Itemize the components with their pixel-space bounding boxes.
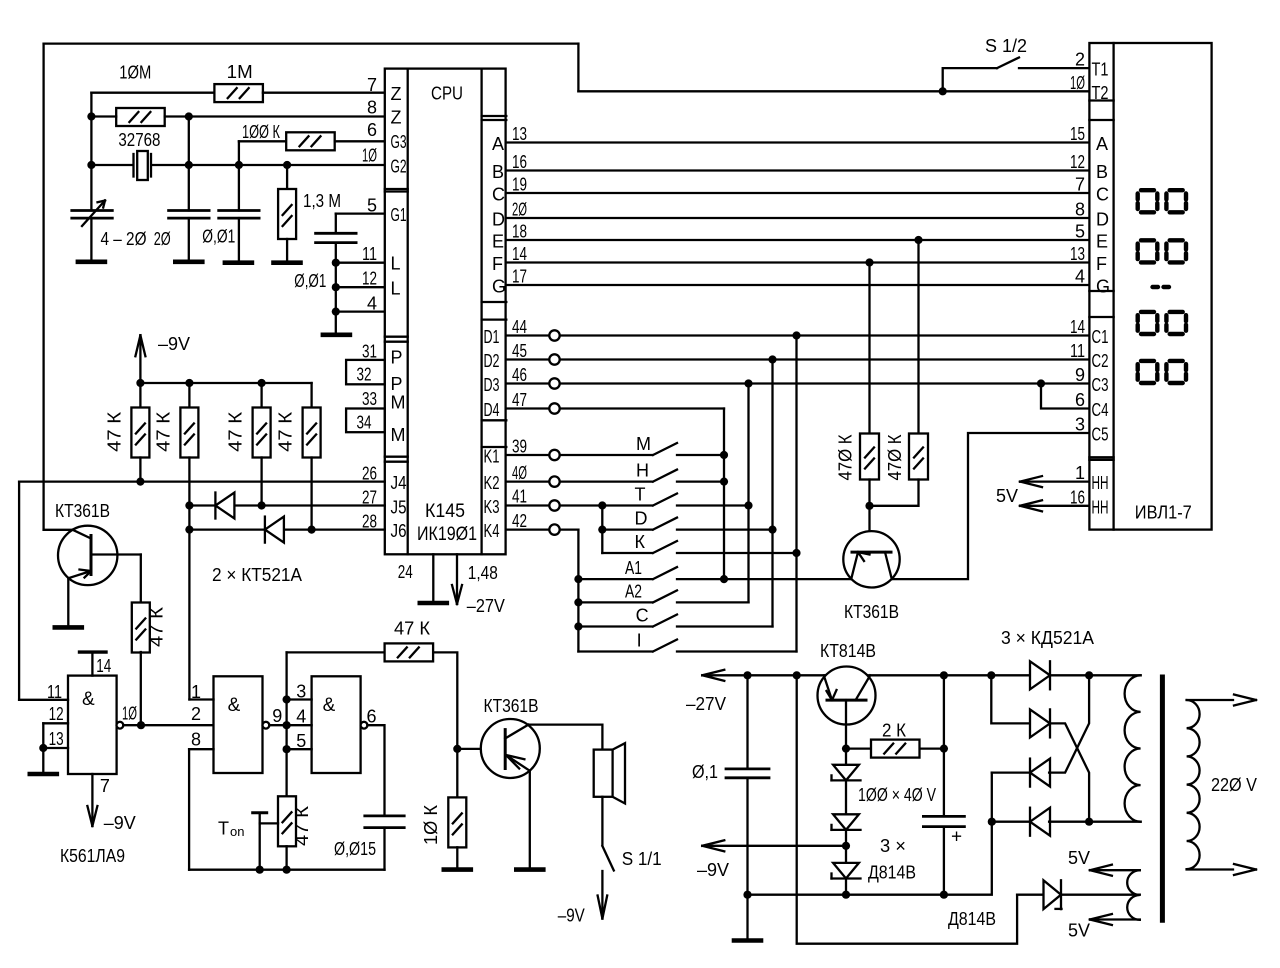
node G2 cap 0.01 (235, 161, 243, 169)
ground var cap (78, 259, 105, 264)
ground V1 (55, 625, 82, 630)
wire 470K b bottom (870, 480, 919, 506)
svg-text:K4: K4 (484, 521, 500, 541)
svg-text:3 ×: 3 × (880, 836, 906, 856)
svg-text:L: L (391, 254, 401, 274)
transistor V1 KT361B left (58, 526, 117, 585)
svg-text:D: D (1096, 210, 1109, 230)
svg-text:1Ø: 1Ø (362, 145, 377, 165)
transformer core (1160, 677, 1165, 920)
wire D2-C2 row (506, 358, 1089, 360)
svg-text:9: 9 (1075, 365, 1085, 385)
wire gate1 out (123, 724, 213, 726)
wire V1 base (91, 553, 141, 555)
svg-text:–9V: –9V (558, 906, 585, 926)
label IVL1-7 (1135, 502, 1192, 522)
svg-text:45: 45 (512, 341, 527, 361)
label 47K fb (394, 619, 431, 639)
svg-text:C3: C3 (1092, 375, 1109, 395)
wire speaker down (601, 797, 603, 845)
transformer 5V winding (1127, 870, 1140, 920)
svg-text:1: 1 (191, 682, 201, 702)
svg-text:K1: K1 (484, 447, 500, 467)
zener VD3 D814V (832, 749, 861, 815)
wire 13 ground (42, 748, 44, 774)
node J5 left (185, 501, 193, 509)
pin D1 circle (549, 330, 559, 340)
svg-text:5: 5 (1075, 222, 1085, 242)
switch K (602, 541, 796, 553)
node rail bridge (987, 671, 995, 679)
label 2 (191, 704, 201, 724)
diode VD7 KD521A (1030, 709, 1050, 737)
svg-text:&: & (82, 689, 95, 710)
svg-text:S 1/2: S 1/2 (985, 36, 1027, 56)
wire D4 row (506, 407, 724, 409)
svg-text:C: C (1096, 185, 1109, 205)
svg-text:13: 13 (512, 124, 527, 144)
diode VD9 KD521A (1030, 808, 1050, 836)
svg-text:1М: 1М (227, 62, 253, 82)
wire bridge left mid (992, 773, 1030, 822)
label 20 (154, 229, 171, 249)
svg-text:А2: А2 (625, 581, 642, 601)
node D row tap (598, 526, 606, 534)
label I (637, 631, 642, 651)
display pin numbers (1070, 50, 1085, 508)
label 5 (296, 731, 306, 751)
wire crystal row (91, 164, 384, 166)
svg-text:C1: C1 (1092, 327, 1109, 347)
gate DD1.1 K561LA9 (68, 676, 117, 774)
label 32768 (118, 130, 160, 150)
wire D row (992, 821, 1141, 823)
svg-text:Ø,Ø15: Ø,Ø15 (334, 839, 376, 859)
svg-text:16: 16 (512, 152, 527, 172)
label 0.01 a (202, 227, 235, 247)
resistor R5 470K (860, 434, 879, 480)
svg-text:К145: К145 (425, 501, 465, 522)
svg-text:ИК19Ø1: ИК19Ø1 (417, 524, 477, 545)
svg-text:47 К: 47 К (147, 606, 167, 647)
wire -9V arrow (702, 840, 846, 851)
svg-text:2: 2 (1075, 50, 1085, 70)
switch I (578, 640, 796, 652)
resistor R8 47K (180, 383, 198, 700)
switch C (578, 615, 772, 627)
label 47K R11 (147, 606, 167, 647)
svg-text:КТ361В: КТ361В (484, 696, 539, 716)
ground pin24 (420, 601, 447, 606)
svg-text:G1: G1 (391, 205, 407, 225)
svg-text:5: 5 (296, 731, 306, 751)
label -27V (686, 694, 726, 714)
node rail R8 (185, 379, 193, 387)
capacitor C7 100uF (923, 675, 964, 894)
svg-text:М: М (636, 434, 651, 454)
node A1-D4 (720, 575, 728, 583)
label 2xKT521A (212, 565, 302, 585)
svg-text:33: 33 (362, 389, 377, 409)
svg-text:НН: НН (1092, 473, 1109, 493)
transistor V4 KT814B (818, 667, 876, 725)
wire D3-C3 row (506, 382, 1089, 384)
svg-text:G3: G3 (391, 132, 407, 152)
svg-text:4: 4 (296, 707, 306, 727)
label 3x (880, 836, 906, 856)
svg-text:31: 31 (362, 341, 377, 361)
svg-text:2 К: 2 К (882, 721, 906, 741)
wire C diag (1049, 675, 1089, 772)
svg-text:39: 39 (512, 437, 527, 457)
wire E to 470K (917, 240, 919, 434)
svg-text:D1: D1 (484, 327, 500, 347)
svg-text:КТ361В: КТ361В (844, 602, 899, 622)
node K3 branch (598, 501, 606, 509)
svg-text:E: E (1096, 232, 1108, 252)
switch S1/1 (602, 846, 613, 871)
svg-text:46: 46 (512, 365, 527, 385)
label 2K (882, 721, 906, 741)
switch A2 (578, 590, 748, 602)
label H (636, 461, 649, 481)
svg-text:G: G (492, 277, 506, 297)
pin K1 circle (549, 450, 559, 460)
node bridge D right (1085, 818, 1093, 826)
svg-text:+: + (951, 827, 962, 848)
node zener rail (842, 891, 850, 899)
wire pin6 row (335, 140, 385, 142)
pin 10 circle (117, 722, 124, 729)
svg-text:3 × КД521А: 3 × КД521А (1001, 628, 1094, 648)
node bridge D (988, 818, 996, 826)
zener VD5 D814V (832, 863, 861, 895)
display pin dividers (1089, 101, 1113, 460)
wire feedback top (287, 651, 385, 653)
svg-text:E: E (492, 232, 504, 252)
capacitor C2 20 (169, 211, 210, 262)
svg-text:47 К: 47 К (292, 805, 312, 846)
wire D1 column (795, 336, 797, 652)
wire pin8 row (91, 115, 384, 117)
resistor R13 47K timing (278, 796, 296, 869)
ground cap 0.01 (225, 260, 252, 265)
wire pin 12 (43, 723, 68, 748)
ground cap 20 (175, 259, 202, 264)
node 10M left (87, 112, 95, 120)
svg-text:–9V: –9V (158, 334, 190, 354)
wire bridge left top (991, 675, 1030, 723)
svg-text:47 К: 47 К (105, 411, 125, 452)
diode VD8 KD521A (1030, 759, 1050, 787)
svg-text:5: 5 (367, 196, 377, 216)
svg-text:K2: K2 (484, 473, 500, 493)
svg-text:C2: C2 (1092, 351, 1109, 371)
node D1 column (792, 331, 800, 339)
svg-text:1ØØ × 4Ø V: 1ØØ × 4Ø V (858, 785, 936, 805)
label 3xKD521A (1001, 628, 1094, 648)
node D1-K (792, 549, 800, 557)
svg-text:С: С (636, 606, 649, 626)
node pin4 (332, 308, 340, 316)
switch A1 (578, 567, 851, 579)
label K145 (425, 501, 465, 522)
svg-text:C: C (492, 185, 505, 205)
svg-text:C4: C4 (1092, 400, 1109, 420)
node bottom c01 (743, 891, 751, 899)
wire K3 branch column (601, 506, 603, 554)
svg-text:4: 4 (1075, 267, 1085, 287)
label D814V b (948, 909, 996, 929)
label -9V ps (697, 860, 729, 880)
pin 6 circle (361, 722, 368, 729)
svg-text:32: 32 (357, 364, 372, 384)
power -9V arrow up (135, 335, 145, 383)
CPU right pin numbers (512, 124, 527, 531)
switch M (653, 443, 724, 455)
svg-text:1,3 М: 1,3 М (303, 191, 341, 211)
zener VD10 D814V (1017, 880, 1140, 909)
svg-text:2Ø: 2Ø (512, 200, 527, 220)
svg-text:1Ø: 1Ø (1070, 73, 1085, 93)
capacitor C4 0.01 G1 (316, 233, 357, 334)
svg-text:P: P (391, 374, 403, 394)
svg-text:G2: G2 (391, 156, 407, 176)
svg-text:J5: J5 (391, 497, 407, 517)
node L1 (332, 259, 340, 267)
svg-text:&: & (228, 695, 241, 716)
node D3 column (744, 379, 752, 387)
svg-text:A: A (492, 134, 504, 154)
svg-text:14: 14 (512, 244, 527, 264)
svg-text:19: 19 (512, 175, 527, 195)
label S1/2 (985, 36, 1027, 56)
node F 470K (865, 258, 873, 266)
gate DD1.3 K561LA9 (312, 676, 361, 773)
label 5V bottom (1068, 921, 1090, 941)
svg-text:8: 8 (191, 730, 201, 750)
svg-text:11: 11 (362, 244, 377, 264)
svg-text:–27V: –27V (686, 694, 726, 714)
svg-text:ИВЛ1-7: ИВЛ1-7 (1135, 502, 1192, 522)
svg-text:4Ø: 4Ø (512, 463, 527, 483)
svg-text:11: 11 (1070, 341, 1085, 361)
node rail Ton (256, 866, 264, 874)
svg-text:on: on (230, 824, 244, 839)
wire ground stub (746, 895, 748, 941)
wire aux column (797, 675, 1017, 943)
label 9 out (272, 706, 282, 726)
svg-text:15: 15 (1070, 124, 1085, 144)
svg-text:41: 41 (512, 487, 527, 507)
wire pin7 row right (263, 92, 385, 94)
svg-text:А1: А1 (625, 558, 642, 578)
resistor R9 47K (253, 383, 271, 506)
node 10M right (185, 112, 193, 120)
svg-text:L: L (391, 279, 401, 299)
svg-text:P: P (391, 348, 403, 368)
node rail v796 (793, 671, 801, 679)
svg-text:D4: D4 (484, 400, 500, 420)
pin 9 circle (263, 722, 270, 729)
label 47K R8 (153, 411, 173, 452)
pin D4 circle (549, 403, 559, 413)
label 470K b (885, 434, 905, 480)
svg-text:Д814В: Д814В (948, 909, 996, 929)
label 100x40V (858, 785, 936, 805)
wire 100K left leg (239, 141, 286, 165)
wire K4 row (506, 528, 578, 530)
svg-text:7: 7 (367, 75, 377, 95)
pin 24 ground wire (432, 554, 434, 603)
wire V1 emitter ground (67, 578, 69, 627)
node D3-T (744, 501, 752, 509)
svg-text:D2: D2 (484, 351, 500, 371)
label 47K timing (292, 805, 312, 846)
node J5 R9 (258, 501, 266, 509)
capacitor C5 0.015 (365, 816, 404, 870)
node pin5 (283, 745, 291, 753)
node J4 R7 (136, 478, 144, 486)
svg-text:5V: 5V (1068, 921, 1090, 941)
wire NN1 arrow (1020, 476, 1089, 487)
wire D3 column (747, 384, 749, 603)
switch T (653, 494, 749, 506)
resistor R4 1.3M (278, 165, 296, 263)
svg-text:&: & (323, 695, 336, 716)
label 100K (242, 122, 280, 142)
svg-text:47 К: 47 К (276, 411, 296, 452)
svg-text:J4: J4 (391, 473, 407, 493)
svg-text:14: 14 (1070, 317, 1085, 337)
label 470K a (836, 434, 856, 480)
wire V2 collector to C5 (892, 433, 1090, 579)
wire mid column (285, 652, 287, 796)
ground 10K (444, 867, 471, 872)
svg-text:47 К: 47 К (153, 411, 173, 452)
svg-text:D: D (492, 210, 505, 230)
node bridge A (1085, 671, 1093, 679)
label 0.01 b (294, 271, 326, 291)
wire D2 column (771, 360, 773, 627)
pin K2 circle (549, 476, 559, 486)
diode VD6 KD521A (1030, 661, 1050, 689)
node 12-13 (39, 744, 47, 752)
svg-text:1: 1 (1075, 463, 1085, 483)
wire gate2 out (269, 724, 286, 726)
node pin4g (283, 721, 291, 729)
svg-text:T2: T2 (1092, 83, 1109, 103)
label S1/1 (622, 849, 662, 869)
wire K4 column (577, 530, 579, 652)
wire pin12 row (336, 286, 385, 288)
display U2 IVL1-7 body (1089, 43, 1211, 530)
switch D (602, 518, 772, 530)
svg-text:9: 9 (272, 706, 282, 726)
wire pin 4 (287, 724, 312, 726)
label 7 (100, 776, 110, 796)
wire J4 row (19, 480, 385, 482)
node -9V tap (842, 842, 850, 850)
wire pin 5 (287, 748, 312, 750)
svg-text:Т: Т (635, 485, 646, 505)
label -9V spk (558, 906, 585, 926)
label 13 (49, 729, 64, 749)
wire S1/1 down arrow (598, 871, 608, 919)
resistor R12 47K fb (385, 643, 434, 661)
svg-text:D: D (635, 509, 648, 529)
label 4-20 (101, 229, 147, 249)
svg-text:Ø,1: Ø,1 (692, 762, 718, 782)
wire bus A-G rows (506, 143, 1089, 286)
wire V3 collector (529, 725, 603, 750)
wire base to V3 (457, 748, 481, 750)
svg-text:M: M (391, 393, 406, 413)
node rail cap (940, 671, 948, 679)
wire pin 8 (189, 749, 213, 870)
resistor R2 1M (214, 84, 263, 102)
wire C4 branch (1041, 384, 1089, 409)
label 47K R10 (276, 411, 296, 452)
svg-text:2 × КТ521А: 2 × КТ521А (212, 565, 302, 585)
wire V3 emitter (529, 771, 531, 870)
node L2 (332, 283, 340, 291)
wire D4 column (723, 409, 725, 580)
label Ton (218, 819, 244, 840)
svg-text:34: 34 (357, 413, 372, 433)
svg-text:M: M (391, 425, 406, 445)
CPU left pin letters (391, 84, 407, 541)
svg-text:4: 4 (367, 294, 377, 314)
pin 7 arrow (87, 774, 97, 826)
node base 2K (842, 745, 850, 753)
label T (635, 485, 646, 505)
wire pin 13 (43, 747, 68, 749)
label 10 out (122, 704, 137, 724)
svg-text:Н: Н (636, 461, 649, 481)
capacitor C6 0.1 (726, 675, 769, 894)
node rail R7 (136, 379, 144, 387)
node D2 column (768, 355, 776, 363)
wire 5V bottom (1090, 914, 1140, 925)
svg-text:КТ814В: КТ814В (820, 641, 876, 661)
svg-text:3: 3 (1075, 415, 1085, 435)
pin K4 circle (549, 524, 559, 534)
svg-text:11: 11 (47, 682, 62, 702)
label CPU (431, 84, 463, 104)
svg-text:22Ø V: 22Ø V (1211, 775, 1257, 795)
node A1 tap (574, 575, 582, 583)
display pin letters (1092, 60, 1111, 518)
svg-text:Z: Z (391, 84, 402, 104)
resistor R3 100K (286, 132, 335, 150)
svg-text:1Ø: 1Ø (122, 704, 137, 724)
transistor V2 KT361B right (843, 531, 899, 587)
pin 34 box (346, 409, 385, 433)
label -9V gate (104, 813, 136, 833)
svg-text:К561ЛА9: К561ЛА9 (60, 846, 125, 866)
wire -9V rail (140, 382, 311, 384)
node out1 47K (137, 721, 145, 729)
wire fb right (433, 652, 457, 749)
svg-text:12: 12 (49, 704, 64, 724)
CPU left pin numbers (362, 75, 377, 532)
svg-text:НН: НН (1092, 497, 1109, 517)
wire gate3 out (367, 725, 384, 816)
node crystal right rail (185, 161, 193, 169)
wire -27V rail (702, 670, 1030, 681)
wire pin 1 (189, 698, 213, 700)
